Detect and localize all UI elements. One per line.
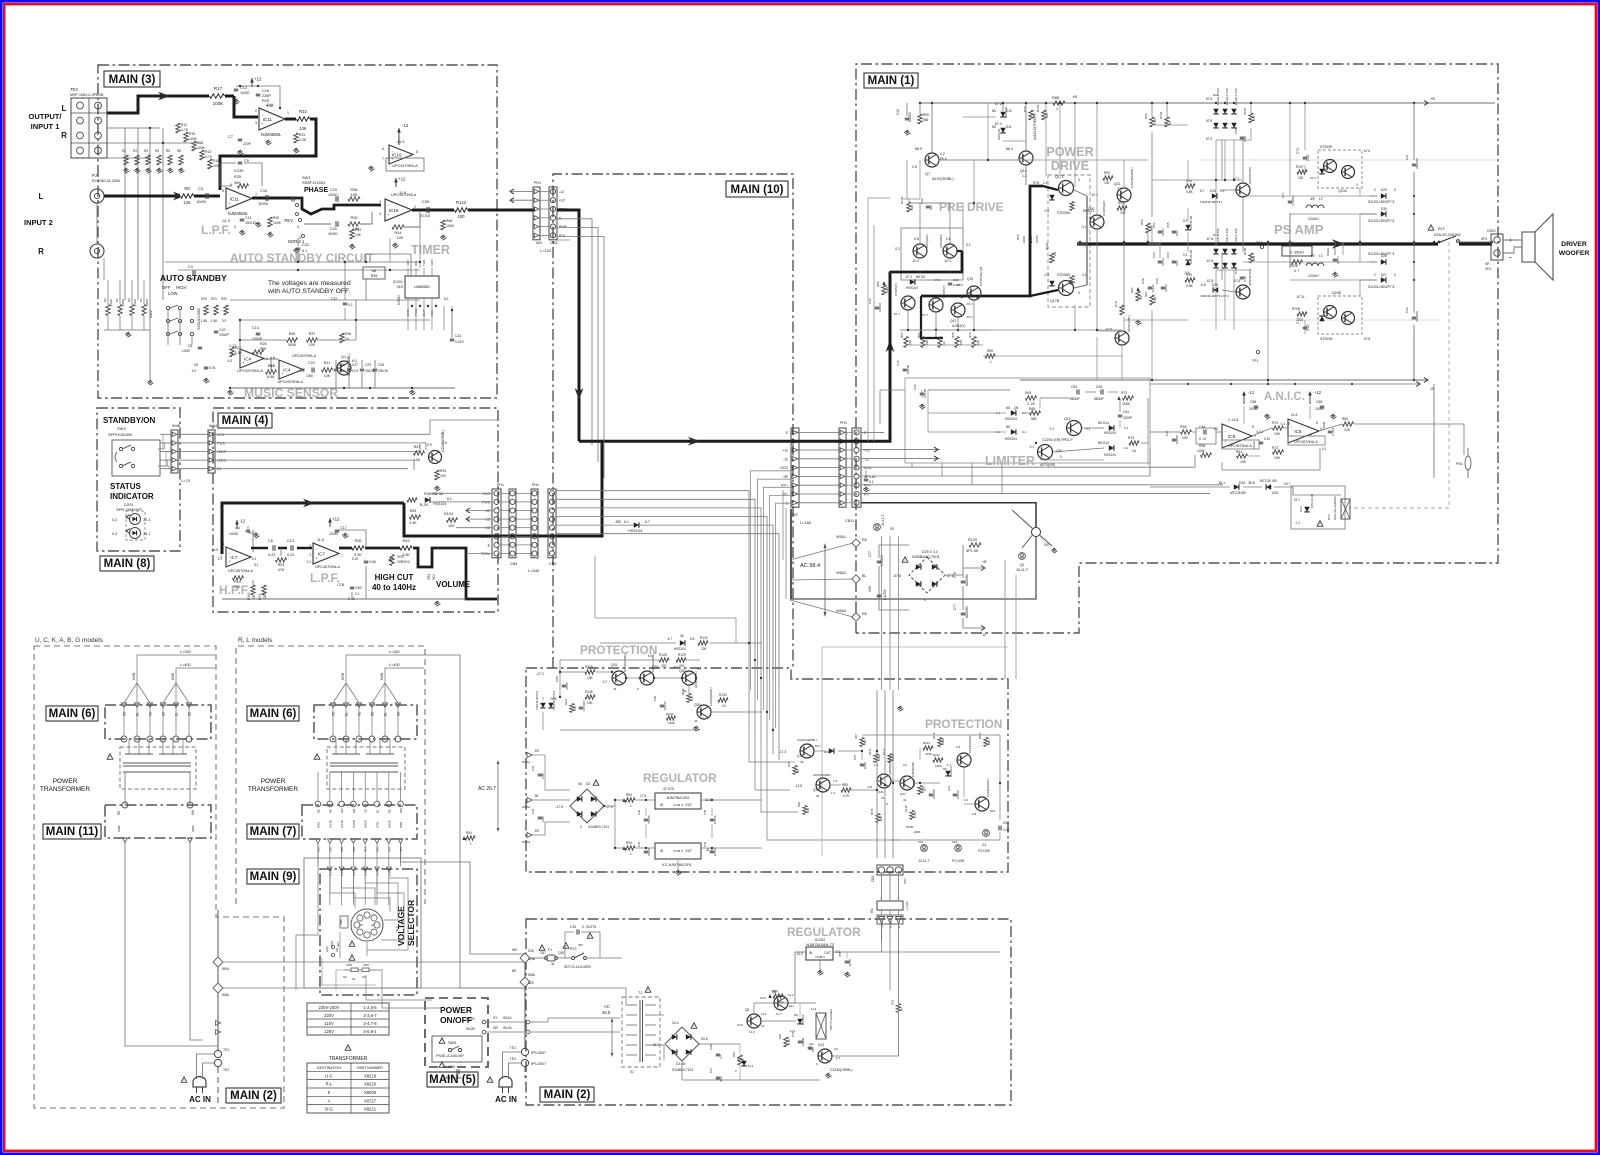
svg-text:SP4: SP4 bbox=[1481, 237, 1487, 241]
svg-text:10RSX2: 10RSX2 bbox=[397, 560, 410, 564]
resistor R32b bbox=[266, 370, 277, 374]
svg-text:+12: +12 bbox=[484, 518, 490, 522]
svg-text:47/25: 47/25 bbox=[565, 682, 569, 690]
arrow main10 bbox=[688, 437, 700, 446]
wire w5a1 tri bbox=[852, 539, 860, 547]
svg-text:RY1: RY1 bbox=[889, 922, 893, 928]
resistor R115 bbox=[876, 814, 880, 823]
resistor R108 bbox=[1297, 312, 1307, 316]
svg-text:10: 10 bbox=[1139, 295, 1143, 299]
svg-text:C49: C49 bbox=[801, 1037, 805, 1043]
svg-text:C2240(GR/BL): C2240(GR/BL) bbox=[651, 653, 655, 672]
power -12 (IC16b) bbox=[398, 128, 400, 145]
svg-text:0: 0 bbox=[1394, 188, 1396, 192]
svg-text:D3 45: D3 45 bbox=[676, 1062, 685, 1066]
resistor R100 bbox=[1120, 305, 1124, 315]
svg-text:R15: R15 bbox=[189, 132, 195, 136]
svg-text:BL: BL bbox=[136, 712, 140, 716]
wires MAIN6 to W5B left bbox=[124, 683, 137, 703]
wire bottom right prot bbox=[890, 839, 1000, 841]
resistor R44 bbox=[392, 225, 404, 229]
svg-text:X8005: X8005 bbox=[364, 1090, 377, 1095]
svg-text:!: ! bbox=[352, 943, 353, 947]
svg-text:4: 4 bbox=[379, 200, 381, 204]
svg-text:IC11: IC11 bbox=[263, 117, 273, 122]
svg-text:1: 1 bbox=[630, 804, 632, 808]
svg-text:R42: R42 bbox=[355, 228, 361, 232]
svg-text:0-022: 0-022 bbox=[1252, 441, 1256, 449]
capacitor C13 redraw bbox=[290, 545, 292, 551]
svg-text:OUTPUT/: OUTPUT/ bbox=[29, 112, 63, 121]
svg-text:C34: C34 bbox=[531, 808, 535, 814]
svg-text:R32: R32 bbox=[273, 216, 279, 220]
svg-text:RE: RE bbox=[328, 809, 332, 813]
resistor R24 bbox=[276, 558, 287, 562]
svg-text:2.2K: 2.2K bbox=[913, 812, 917, 818]
connector W3 bbox=[533, 187, 540, 240]
svg-text:3: 3 bbox=[1356, 183, 1358, 187]
svg-text:C59: C59 bbox=[1234, 128, 1238, 134]
svg-text:1.9: 1.9 bbox=[833, 779, 838, 783]
capacitor C89 bbox=[579, 706, 584, 708]
svg-text:VR2: VR2 bbox=[397, 555, 404, 559]
svg-text:HSS104: HSS104 bbox=[1005, 437, 1017, 441]
resistor R116 bbox=[918, 786, 922, 795]
wires left entry regulator bbox=[460, 819, 527, 821]
svg-text:+12: +12 bbox=[1314, 390, 1322, 395]
box MAIN (6) left bbox=[105, 705, 211, 739]
wire limiter top feeds bbox=[880, 389, 905, 391]
svg-text:CB4: CB4 bbox=[510, 562, 517, 566]
svg-text:0.1: 0.1 bbox=[307, 560, 312, 564]
svg-text:10/50: 10/50 bbox=[196, 199, 207, 204]
resistor R51 bbox=[435, 470, 439, 480]
svg-text:100K: 100K bbox=[446, 224, 455, 228]
resistor R130 bbox=[687, 694, 691, 703]
diode D28 bbox=[1381, 259, 1386, 264]
svg-text:!: ! bbox=[1431, 227, 1432, 231]
svg-text:W4B: W4B bbox=[172, 424, 181, 428]
svg-text:1K: 1K bbox=[1132, 449, 1137, 453]
svg-text:−: − bbox=[228, 552, 230, 556]
resistor R33 bbox=[296, 115, 310, 123]
svg-text:R6: R6 bbox=[177, 149, 181, 153]
svg-text:!: ! bbox=[648, 989, 649, 993]
wires W2 pins left corners bbox=[751, 471, 792, 690]
svg-text:5: 5 bbox=[222, 542, 224, 546]
svg-text:220: 220 bbox=[1298, 176, 1304, 180]
svg-text:100K: 100K bbox=[1022, 236, 1026, 243]
svg-text:100K: 100K bbox=[877, 754, 881, 761]
svg-text:F2: F2 bbox=[1117, 187, 1121, 191]
svg-text:6800P: 6800P bbox=[1070, 397, 1081, 401]
jacks J203 bbox=[331, 945, 334, 948]
capacitor C9 lpf bbox=[238, 161, 243, 163]
svg-text:6.8: 6.8 bbox=[270, 356, 275, 360]
svg-text:R68: R68 bbox=[951, 332, 955, 338]
svg-text:100: 100 bbox=[458, 214, 466, 219]
capacitor C11 bbox=[240, 218, 245, 220]
svg-text:MAIN (10): MAIN (10) bbox=[730, 184, 783, 196]
svg-text:BE: BE bbox=[397, 712, 401, 716]
svg-text:4/9: 4/9 bbox=[1310, 254, 1315, 258]
svg-text:3: 3 bbox=[255, 121, 257, 125]
resistor R66v bbox=[441, 220, 445, 230]
svg-text:R4: R4 bbox=[155, 149, 159, 153]
svg-text:SDT-S-112LMR2: SDT-S-112LMR2 bbox=[564, 965, 591, 969]
svg-text:100K: 100K bbox=[1197, 449, 1206, 453]
transistor Q13 bbox=[818, 1049, 832, 1063]
svg-text:-67.1: -67.1 bbox=[905, 275, 912, 279]
ground mid main1 bbox=[1137, 320, 1139, 323]
svg-text:2P1: 2P1 bbox=[1252, 115, 1256, 121]
svg-text:W15B: W15B bbox=[352, 820, 356, 828]
capacitor C32 bbox=[576, 930, 578, 935]
svg-text:0.022: 0.022 bbox=[1151, 284, 1155, 292]
svg-text:C49: C49 bbox=[913, 384, 917, 390]
svg-text:1000P: 1000P bbox=[1175, 435, 1179, 444]
wire S25 right bbox=[401, 843, 525, 954]
svg-text:AC: AC bbox=[604, 1004, 610, 1009]
svg-text:N5: N5 bbox=[1006, 406, 1010, 410]
svg-text:SW5: SW5 bbox=[448, 1041, 456, 1045]
svg-text:+B: +B bbox=[1072, 94, 1077, 99]
ground Q2 bbox=[436, 486, 438, 489]
solid feed box protection bbox=[594, 556, 596, 618]
svg-text:6800P: 6800P bbox=[1094, 397, 1105, 401]
transistor Q31 bbox=[612, 671, 626, 685]
capacitor C77 bbox=[961, 612, 966, 614]
svg-text:W7A: W7A bbox=[376, 870, 380, 876]
svg-text:0.01: 0.01 bbox=[1175, 260, 1179, 266]
svg-text:R4: R4 bbox=[139, 298, 143, 302]
svg-text:TP1: TP1 bbox=[1252, 359, 1258, 363]
svg-text:4-5,8-1: 4-5,8-1 bbox=[363, 1029, 377, 1034]
transformer windings bbox=[335, 739, 337, 754]
resistor R62 bbox=[784, 1037, 788, 1047]
svg-text:1: 1 bbox=[1056, 107, 1058, 111]
transistor Q21 bbox=[1117, 188, 1131, 202]
capacitor C65 bbox=[1172, 230, 1177, 232]
svg-text:R72: R72 bbox=[1272, 446, 1278, 450]
svg-text:L: L bbox=[62, 104, 67, 113]
capacitor C62 lower bbox=[1412, 316, 1417, 318]
svg-text:PJ1: PJ1 bbox=[92, 173, 100, 178]
svg-text:R10B: R10B bbox=[906, 825, 913, 829]
capacitor C15 bbox=[265, 195, 267, 201]
svg-text:MTZJ5.6B: MTZJ5.6B bbox=[1230, 491, 1246, 495]
svg-text:-67.8: -67.8 bbox=[1206, 237, 1213, 241]
svg-text:43: 43 bbox=[694, 719, 698, 723]
resistor R125 bbox=[585, 670, 595, 674]
wire bottom bus main3 bbox=[230, 387, 455, 389]
svg-text:C51: C51 bbox=[1071, 385, 1077, 389]
svg-text:S26: S26 bbox=[528, 949, 534, 953]
svg-text:!: ! bbox=[490, 1079, 491, 1083]
svg-text:INPUT 2: INPUT 2 bbox=[24, 218, 53, 227]
capacitor C55 bbox=[845, 960, 850, 962]
svg-text:S3: S3 bbox=[362, 975, 366, 979]
svg-text:EE: EE bbox=[535, 829, 539, 833]
svg-text:L=400: L=400 bbox=[180, 663, 191, 667]
svg-text:R73: R73 bbox=[1121, 391, 1127, 395]
wire thick main to predrive bbox=[791, 272, 890, 441]
svg-text:11.2: 11.2 bbox=[761, 1012, 767, 1016]
svg-text:C4: C4 bbox=[235, 526, 240, 530]
svg-text:R43: R43 bbox=[403, 539, 410, 543]
svg-text:LOW: LOW bbox=[168, 291, 178, 296]
svg-text:C1815(Y): C1815(Y) bbox=[942, 285, 946, 298]
wire anic feedback bottom bbox=[1222, 448, 1320, 470]
wires MAIN11 down to AC IN bbox=[125, 842, 218, 1050]
svg-text:C2705(G)(Y)B: C2705(G)(Y)B bbox=[979, 267, 983, 286]
svg-text:BL: BL bbox=[384, 712, 388, 716]
svg-text:R55: R55 bbox=[1180, 425, 1187, 429]
svg-text:INPUT 1: INPUT 1 bbox=[31, 122, 60, 131]
wire vcc rail down bbox=[889, 940, 891, 990]
svg-text:-67.7: -67.7 bbox=[893, 312, 900, 316]
svg-text:MTZJ2.4B: MTZJ2.4B bbox=[1310, 494, 1314, 508]
svg-text:L: L bbox=[39, 192, 44, 201]
resistor R53 bbox=[625, 798, 635, 802]
svg-text:0. 95UH: 0. 95UH bbox=[1290, 251, 1304, 255]
svg-text:IC16: IC16 bbox=[389, 208, 399, 213]
svg-text:R51: R51 bbox=[440, 469, 446, 473]
svg-text:-67.1: -67.1 bbox=[966, 302, 973, 306]
svg-text:COM 0: COM 0 bbox=[815, 955, 825, 959]
plug PN1 bbox=[1465, 456, 1471, 470]
svg-text:D29: D29 bbox=[1381, 188, 1387, 192]
capacitor LR3 bbox=[953, 793, 958, 795]
svg-text:0: 0 bbox=[924, 598, 926, 602]
diode D15 bbox=[1212, 193, 1217, 198]
svg-text:0.5/250: 0.5/250 bbox=[880, 555, 884, 566]
svg-text:HSS104: HSS104 bbox=[949, 766, 953, 777]
transistor Q5 bbox=[943, 244, 957, 258]
svg-text:UPC4570Ha-a: UPC4570Ha-a bbox=[228, 569, 254, 573]
arrow main4 bbox=[303, 499, 315, 508]
svg-text:100: 100 bbox=[1182, 436, 1188, 440]
terminal TE1 left bbox=[214, 1050, 221, 1057]
svg-text:C11: C11 bbox=[245, 216, 252, 220]
svg-text:PN1: PN1 bbox=[1456, 462, 1463, 466]
capacitor C23 bbox=[311, 368, 313, 373]
transformer windings bbox=[128, 739, 130, 754]
svg-text:C46: C46 bbox=[703, 841, 707, 847]
capacitor C36 bbox=[875, 306, 880, 308]
svg-text:AUTO STANDBY CIRCUIT: AUTO STANDBY CIRCUIT bbox=[230, 251, 374, 265]
svg-text:PART NUMBER: PART NUMBER bbox=[357, 1066, 383, 1070]
svg-text:MAIN (11): MAIN (11) bbox=[46, 826, 99, 838]
resistor R98 bbox=[1185, 184, 1195, 188]
svg-text:0: 0 bbox=[1078, 291, 1080, 295]
svg-text:−: − bbox=[261, 113, 263, 117]
svg-text:54.6: 54.6 bbox=[737, 1023, 743, 1027]
op-amp IC7b lpf bbox=[313, 543, 339, 564]
svg-text:0.1: 0.1 bbox=[302, 248, 308, 253]
diode stack lower ELO2 bbox=[1213, 249, 1218, 254]
svg-text:A970(GR/BL): A970(GR/BL) bbox=[694, 671, 698, 688]
svg-text:C9/22: C9/22 bbox=[1326, 248, 1330, 256]
svg-text:C10: C10 bbox=[219, 328, 225, 332]
op-amp IC4a bbox=[240, 349, 264, 368]
transistor Q17C bbox=[1059, 181, 1074, 196]
box models left bbox=[34, 646, 284, 1108]
capacitor C50 lim bbox=[920, 392, 925, 394]
svg-text:2200P: 2200P bbox=[1123, 416, 1132, 420]
svg-text:0.039: 0.039 bbox=[234, 169, 244, 173]
svg-text:1SR139-400T31: 1SR139-400T31 bbox=[1200, 294, 1222, 298]
svg-text:R3: R3 bbox=[144, 149, 148, 153]
wire to IC11 bbox=[234, 96, 258, 117]
resistor row predrive bottom bbox=[904, 337, 908, 348]
resistor R70 bbox=[1273, 426, 1284, 430]
svg-text:W16A: W16A bbox=[364, 868, 368, 876]
svg-text:0.1: 0.1 bbox=[1050, 427, 1055, 431]
svg-text:C45: C45 bbox=[703, 809, 707, 815]
wire W9D down bbox=[296, 843, 318, 990]
svg-text:VCC: VCC bbox=[217, 433, 225, 437]
svg-text:−: − bbox=[391, 149, 393, 153]
svg-text:RY-: RY- bbox=[864, 493, 870, 497]
svg-text:R59: R59 bbox=[923, 113, 929, 117]
bridge D2 bbox=[570, 789, 604, 823]
svg-text:C86: C86 bbox=[1250, 400, 1256, 404]
svg-text:+12: +12 bbox=[782, 449, 788, 453]
svg-text:8.1: 8.1 bbox=[444, 297, 449, 301]
svg-text:8: 8 bbox=[416, 150, 418, 154]
resistor R111 bbox=[874, 754, 878, 763]
svg-text:2 -11.8: 2 -11.8 bbox=[1228, 418, 1238, 422]
wires node S6 spokes bbox=[1022, 536, 1032, 549]
svg-text:C60: C60 bbox=[1405, 307, 1409, 313]
resistor R135 bbox=[1042, 110, 1046, 120]
svg-text:0.01: 0.01 bbox=[339, 369, 345, 373]
svg-text:566: 566 bbox=[923, 118, 929, 122]
svg-text:220: 220 bbox=[908, 340, 912, 345]
svg-text:10: 10 bbox=[900, 1007, 904, 1011]
svg-text:FG.USE: FG.USE bbox=[978, 849, 990, 853]
label box MAIN (7) bbox=[247, 824, 299, 839]
svg-text:Q21: Q21 bbox=[1114, 182, 1121, 186]
svg-text:47/16: 47/16 bbox=[420, 213, 431, 218]
wires MAIN6 to W5B right bbox=[333, 683, 346, 703]
svg-text:R135: R135 bbox=[1045, 242, 1049, 250]
svg-text:+: + bbox=[1509, 238, 1512, 244]
power -12 anic bbox=[1243, 393, 1245, 404]
capacitor C21 bbox=[335, 221, 337, 227]
wire pv1 row bbox=[557, 239, 570, 241]
svg-text:!: ! bbox=[590, 935, 591, 939]
svg-text:L1: L1 bbox=[1290, 241, 1294, 245]
svg-text:TE2: TE2 bbox=[223, 1068, 229, 1072]
wire vcc right bbox=[430, 420, 497, 434]
svg-text:66.9: 66.9 bbox=[915, 147, 922, 151]
svg-text:R8: R8 bbox=[184, 186, 190, 191]
resistor R36 R37 bbox=[287, 338, 298, 342]
svg-text:0.8: 0.8 bbox=[914, 237, 919, 241]
fuse symbols left ac bbox=[213, 957, 223, 967]
svg-text:D2: D2 bbox=[586, 782, 590, 786]
svg-text:S14: S14 bbox=[395, 926, 399, 932]
svg-text:10/50: 10/50 bbox=[848, 959, 852, 966]
svg-text:5: 5 bbox=[1252, 425, 1254, 429]
svg-text:R95: R95 bbox=[1140, 219, 1144, 225]
svg-text:22K: 22K bbox=[701, 647, 708, 651]
svg-text:HIGH CUT: HIGH CUT bbox=[375, 573, 414, 582]
svg-text:!: ! bbox=[1320, 523, 1321, 527]
svg-text:DESTINATION: DESTINATION bbox=[317, 1066, 341, 1070]
svg-text:10/50: 10/50 bbox=[329, 532, 338, 536]
svg-text:6.7: 6.7 bbox=[674, 665, 679, 669]
svg-text:C36: C36 bbox=[868, 298, 872, 304]
svg-text:−: − bbox=[1509, 255, 1512, 261]
svg-text:RJ-1060-01-Z500: RJ-1060-01-Z500 bbox=[92, 179, 120, 183]
svg-text:!: ! bbox=[348, 1047, 349, 1051]
svg-text:CR6: CR6 bbox=[363, 963, 369, 967]
resistor R119 bbox=[938, 738, 942, 747]
svg-text:W13B: W13B bbox=[328, 820, 332, 828]
svg-text:4.7K: 4.7K bbox=[205, 155, 213, 159]
power drive dashed box bbox=[1048, 175, 1090, 307]
svg-text:A1987(C479): A1987(C479) bbox=[1248, 167, 1252, 184]
svg-text:66.4: 66.4 bbox=[1006, 147, 1013, 151]
svg-text:R132: R132 bbox=[700, 636, 708, 640]
svg-text:1000P: 1000P bbox=[219, 333, 230, 337]
svg-text:Q30: Q30 bbox=[679, 669, 686, 673]
svg-text:POWER: POWER bbox=[440, 1005, 472, 1015]
wires bridge bbox=[879, 544, 909, 546]
svg-text:R119: R119 bbox=[932, 732, 936, 739]
svg-text:0.1/250: 0.1/250 bbox=[883, 589, 887, 600]
svg-text:R88: R88 bbox=[1052, 96, 1059, 100]
op-amp IC8a bbox=[1222, 424, 1252, 448]
svg-text:R56: R56 bbox=[732, 1051, 736, 1057]
capacitor C7 bbox=[238, 138, 243, 140]
svg-text:C52: C52 bbox=[1003, 821, 1009, 825]
diode D14 bbox=[1109, 425, 1114, 430]
svg-text:!: ! bbox=[542, 947, 543, 951]
capacitor C18 bbox=[350, 586, 355, 588]
svg-text:C54: C54 bbox=[1123, 410, 1129, 414]
svg-text:J0-11-T: J0-11-T bbox=[881, 515, 885, 526]
diode J85 HSS104 bbox=[634, 522, 639, 527]
svg-text:R96: R96 bbox=[1144, 113, 1148, 119]
svg-text:S2L20U-5002P7.5: S2L20U-5002P7.5 bbox=[1368, 200, 1394, 204]
svg-text:10/50: 10/50 bbox=[863, 762, 867, 769]
svg-text:C22: C22 bbox=[302, 242, 310, 247]
svg-text:C29: C29 bbox=[365, 363, 371, 367]
svg-text:W9A: W9A bbox=[222, 967, 230, 971]
svg-text:12.1: 12.1 bbox=[143, 532, 150, 536]
svg-text:S2L20U-5002P7.5: S2L20U-5002P7.5 bbox=[1368, 252, 1394, 256]
svg-text:+: + bbox=[228, 560, 230, 564]
svg-text:VOLUME: VOLUME bbox=[436, 580, 471, 589]
svg-text:EL02(LF-45K: EL02(LF-45K bbox=[1225, 228, 1229, 245]
capacitor C4 bbox=[246, 529, 251, 531]
svg-text:BE: BE bbox=[162, 712, 166, 716]
capacitor C90 bbox=[660, 704, 665, 706]
transistor Q32 bbox=[640, 671, 654, 685]
svg-text:56K: 56K bbox=[260, 347, 267, 351]
svg-text:17.5: 17.5 bbox=[606, 805, 613, 809]
wire thick bottom bus main1 bbox=[790, 537, 1036, 600]
capacitor C10 bbox=[214, 330, 219, 332]
svg-text:G1: G1 bbox=[982, 843, 986, 847]
svg-text:C28: C28 bbox=[378, 363, 384, 367]
svg-text:A970(GR/BL): A970(GR/BL) bbox=[1127, 315, 1131, 332]
resistor R41 bbox=[322, 368, 333, 372]
